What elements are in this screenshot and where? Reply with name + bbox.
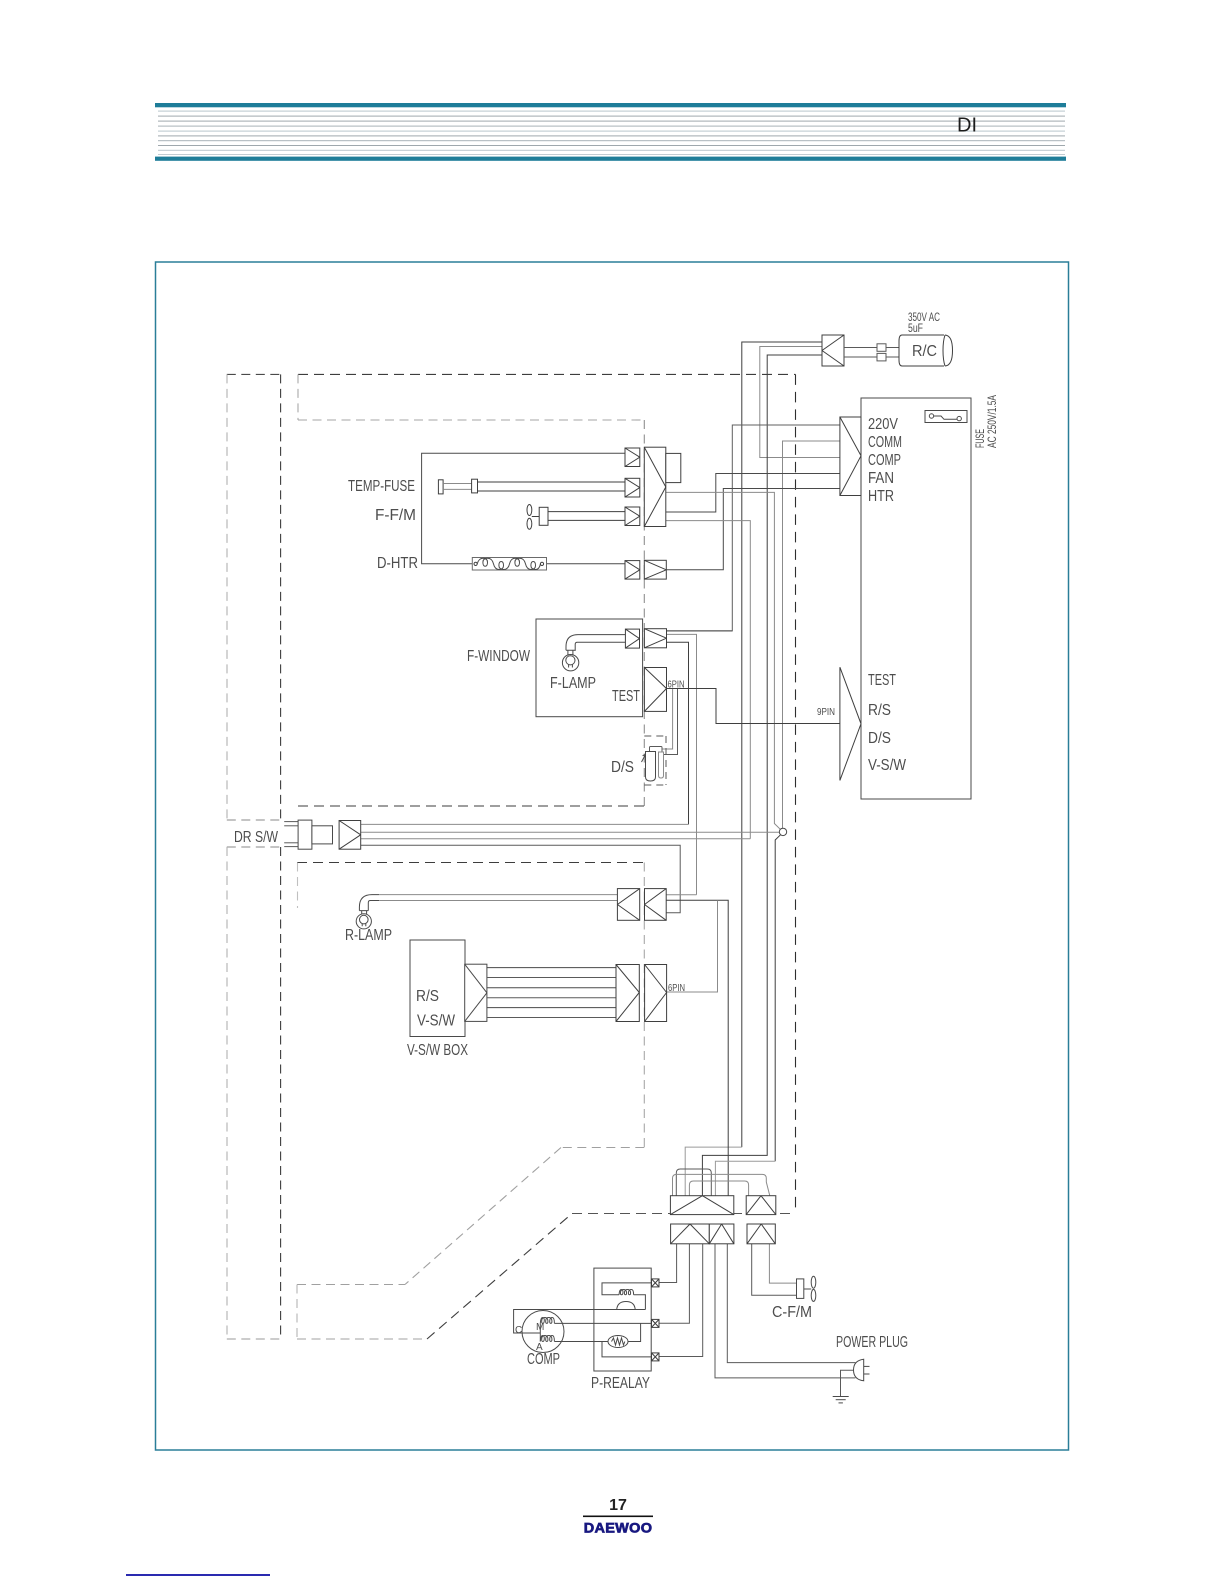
wire DR S/W 2 <box>361 831 780 833</box>
svg-text:6PIN: 6PIN <box>668 680 685 691</box>
connector R/C plug <box>822 335 844 366</box>
svg-text:COMP: COMP <box>527 1351 560 1368</box>
svg-text:AC 250V/1.5A: AC 250V/1.5A <box>985 395 999 448</box>
door outline A top edge <box>227 373 281 375</box>
svg-text:DI: DI <box>957 115 977 137</box>
wire staple jumper 2 <box>673 1174 770 1195</box>
door outline B top edge <box>227 846 281 848</box>
wire staple jumper 1 <box>676 1169 711 1196</box>
fresh liner top edge <box>298 419 644 421</box>
wire to C-F/M high <box>769 1244 796 1283</box>
wire DR S/W 1 <box>361 823 689 825</box>
wire DR S/W 3 <box>361 838 751 840</box>
wire R-LAMP leads <box>379 895 617 901</box>
wire junction stem jog to pin <box>715 1161 775 1195</box>
page number rule <box>583 1516 653 1518</box>
wire junction stem down <box>775 835 780 1162</box>
svg-text:HTR: HTR <box>868 488 894 505</box>
header rule line 3 <box>158 121 1065 122</box>
svg-text:V-S/W: V-S/W <box>868 757 907 774</box>
relay OLP oval <box>554 1323 640 1347</box>
wire compressor C line <box>514 1310 646 1334</box>
wire lower pin to plug bottom <box>715 1244 855 1378</box>
wire lower pin to relay bowtie 2 <box>659 1244 689 1323</box>
freezer liner diagonal <box>405 1148 561 1285</box>
V-S/W BOX housing <box>410 940 465 1037</box>
connector block small plug row2 <box>625 478 640 497</box>
header rule line 4 <box>158 126 1065 127</box>
svg-text:DR S/W: DR S/W <box>234 829 279 846</box>
wire F-LAMP pin3 <box>667 642 689 824</box>
wire R-LAMP out B <box>666 900 728 1195</box>
header rule line 5 <box>158 131 1065 132</box>
temp-fuse symbol <box>438 479 625 494</box>
svg-text:F-F/M: F-F/M <box>375 507 416 524</box>
svg-text:R-LAMP: R-LAMP <box>345 927 392 944</box>
cabinet bottom edge <box>572 1213 796 1215</box>
wire V-S/W bundle 6 lines <box>487 968 616 1018</box>
relay bottom link <box>602 1342 652 1357</box>
freezer liner lower top edge <box>297 1284 405 1286</box>
D-HTR heater element <box>472 558 546 571</box>
wire lower pin to plug top <box>727 1244 855 1363</box>
connector D-HTR plug pair <box>625 560 666 579</box>
F-F/M fan motor <box>527 505 625 530</box>
wire R/C lead 3 <box>702 355 822 1196</box>
connector V-S/W plug pair 6PIN <box>616 965 667 1022</box>
svg-text:D-HTR: D-HTR <box>377 555 418 572</box>
relay bowtie terminal 3 <box>652 1353 660 1361</box>
C-F/M condenser fan motor <box>797 1276 816 1301</box>
svg-text:DAEWOO: DAEWOO <box>584 1520 653 1536</box>
svg-text:COMP: COMP <box>868 452 901 469</box>
svg-text:5uF: 5uF <box>908 323 923 335</box>
ground symbol <box>833 1397 849 1403</box>
control board box <box>861 398 971 799</box>
svg-text:6PIN: 6PIN <box>668 983 685 994</box>
fresh liner right edge <box>643 420 645 806</box>
wire lower pin to relay bowtie 1 <box>659 1244 677 1283</box>
header bottom teal bar <box>155 157 1066 161</box>
junction node dot <box>779 828 786 835</box>
relay bowtie terminal 2 <box>652 1319 660 1327</box>
wire TEST to 9PIN <box>667 689 840 724</box>
door outline B left edge <box>226 847 228 1339</box>
relay bowtie terminal 1 <box>652 1279 660 1287</box>
header rule line 10 <box>158 154 1065 155</box>
freezer liner lower bottom edge <box>297 1338 427 1340</box>
connector main harness upper left <box>670 1196 733 1215</box>
header rule line 2 <box>158 116 1065 117</box>
connector block small plug row1 <box>625 448 640 467</box>
svg-text:220V: 220V <box>868 416 898 433</box>
svg-text:C: C <box>515 1325 522 1336</box>
wire temp-fuse loop <box>422 453 625 564</box>
wire VSW 6pin out <box>667 900 718 992</box>
header top teal bar <box>155 103 1066 107</box>
R-LAMP lamp symbol <box>356 895 379 929</box>
compressor internal tie <box>539 1323 541 1341</box>
wire D/S lead 1 <box>662 689 673 749</box>
door outline B right edge <box>280 847 282 1339</box>
F-WINDOW enclosure box <box>536 619 643 717</box>
connector main harness lower row <box>671 1224 776 1244</box>
freezer liner left stub <box>297 863 299 909</box>
capacitor R/C body <box>899 335 953 366</box>
wire R/C lead 1 <box>742 342 822 1147</box>
svg-text:COMM: COMM <box>868 434 902 451</box>
wire F-LAMP pin1 <box>667 630 733 632</box>
cabinet top edge <box>298 373 796 375</box>
header rule line 6 <box>158 135 1065 136</box>
freezer liner right edge <box>643 863 645 1148</box>
wire FAN line <box>666 474 840 513</box>
wire staple jumper 3 <box>689 1181 748 1196</box>
svg-text:TEST: TEST <box>868 672 896 689</box>
wire R-LAMP out A <box>666 894 696 896</box>
svg-text:R/C: R/C <box>912 343 937 360</box>
svg-text:V-S/W BOX: V-S/W BOX <box>407 1042 468 1059</box>
wire left block out low <box>666 521 751 839</box>
connector block small plug row3 <box>625 507 640 526</box>
door outline A left edge <box>226 374 228 820</box>
compressor COMP circle <box>522 1311 564 1353</box>
header rule line 7 <box>158 140 1065 141</box>
relay coil <box>602 1283 652 1310</box>
svg-text:F-WINDOW: F-WINDOW <box>467 648 531 665</box>
connector block main housing <box>644 447 681 526</box>
DR S/W door switch symbol <box>284 820 332 849</box>
capacitor R/C leads <box>844 344 899 361</box>
svg-text:C-F/M: C-F/M <box>772 1304 812 1321</box>
F-LAMP lamp symbol <box>562 635 625 671</box>
connector TEST 6PIN <box>644 668 666 712</box>
cabinet right edge <box>795 374 797 1213</box>
door outline A right edge <box>280 374 282 820</box>
connector main harness upper right <box>746 1196 776 1215</box>
svg-text:D/S: D/S <box>868 730 891 747</box>
wire to C-F/M low <box>752 1244 797 1296</box>
wire DR S/W 4 <box>361 845 681 912</box>
svg-text:POWER PLUG: POWER PLUG <box>836 1334 908 1351</box>
cabinet bottom diagonal <box>427 1214 572 1340</box>
header rule line 1 <box>158 111 1065 112</box>
wire R/C lead 1 jog to pin <box>685 1147 742 1196</box>
compressor M winding <box>540 1318 554 1324</box>
wire R/C lead 2 to COMP pin <box>760 347 840 458</box>
freezer liner top edge <box>297 862 644 864</box>
svg-text:V-S/W: V-S/W <box>417 1013 456 1030</box>
compressor A winding <box>540 1336 554 1342</box>
wire plug ground stub <box>841 1370 856 1396</box>
wire HTR line <box>666 489 840 570</box>
svg-text:D/S: D/S <box>611 759 634 776</box>
svg-text:TEST: TEST <box>612 688 640 705</box>
svg-text:F-LAMP: F-LAMP <box>550 675 596 692</box>
POWER PLUG symbol <box>854 1359 870 1381</box>
wire F-LAMP pin2 <box>667 634 697 894</box>
fresh liner bottom edge <box>298 805 644 807</box>
svg-text:TEMP-FUSE: TEMP-FUSE <box>348 478 415 495</box>
connector R-LAMP plug pair <box>617 889 666 921</box>
svg-text:M: M <box>536 1322 544 1333</box>
svg-text:R/S: R/S <box>416 988 439 1005</box>
door outline A bottom edge <box>227 819 281 821</box>
wire 220V line <box>667 425 841 631</box>
relay P-REALAY box <box>594 1268 651 1371</box>
svg-text:17: 17 <box>609 1497 627 1514</box>
svg-text:P-REALAY: P-REALAY <box>591 1375 650 1392</box>
svg-text:9PIN: 9PIN <box>817 707 835 718</box>
wire left block out mid <box>666 492 780 829</box>
cabinet left corner stub <box>297 374 299 420</box>
svg-text:FAN: FAN <box>868 470 894 487</box>
relay contact arc <box>617 1302 636 1310</box>
door outline B bottom edge <box>227 1338 281 1340</box>
wire COMM line <box>783 441 841 828</box>
connector V-S/W box fan-out <box>465 964 487 1021</box>
header rule line 8 <box>158 145 1065 146</box>
wire compressor M line <box>554 1322 652 1324</box>
connector DR S/W plug <box>339 821 361 850</box>
diagram outer border <box>156 262 1069 1450</box>
bottom-left blue rule <box>126 1574 270 1576</box>
svg-text:R/S: R/S <box>868 702 891 719</box>
D/S door switch dashed box <box>644 736 666 785</box>
connector F-LAMP plug pair <box>625 629 666 648</box>
connector board power 5pin <box>840 417 861 496</box>
wire D/S lead 2 <box>664 689 678 755</box>
freezer liner lower left edge <box>296 1285 298 1340</box>
connector board 9PIN <box>840 667 861 780</box>
fuse symbol on board <box>925 411 967 423</box>
wire d-htr right lead <box>546 563 625 565</box>
header rule line 9 <box>158 150 1065 151</box>
freezer liner bottom jog <box>561 1147 644 1149</box>
D/S reed switch symbol <box>642 747 664 782</box>
wire lower pin to relay bowtie 3 <box>659 1244 703 1357</box>
